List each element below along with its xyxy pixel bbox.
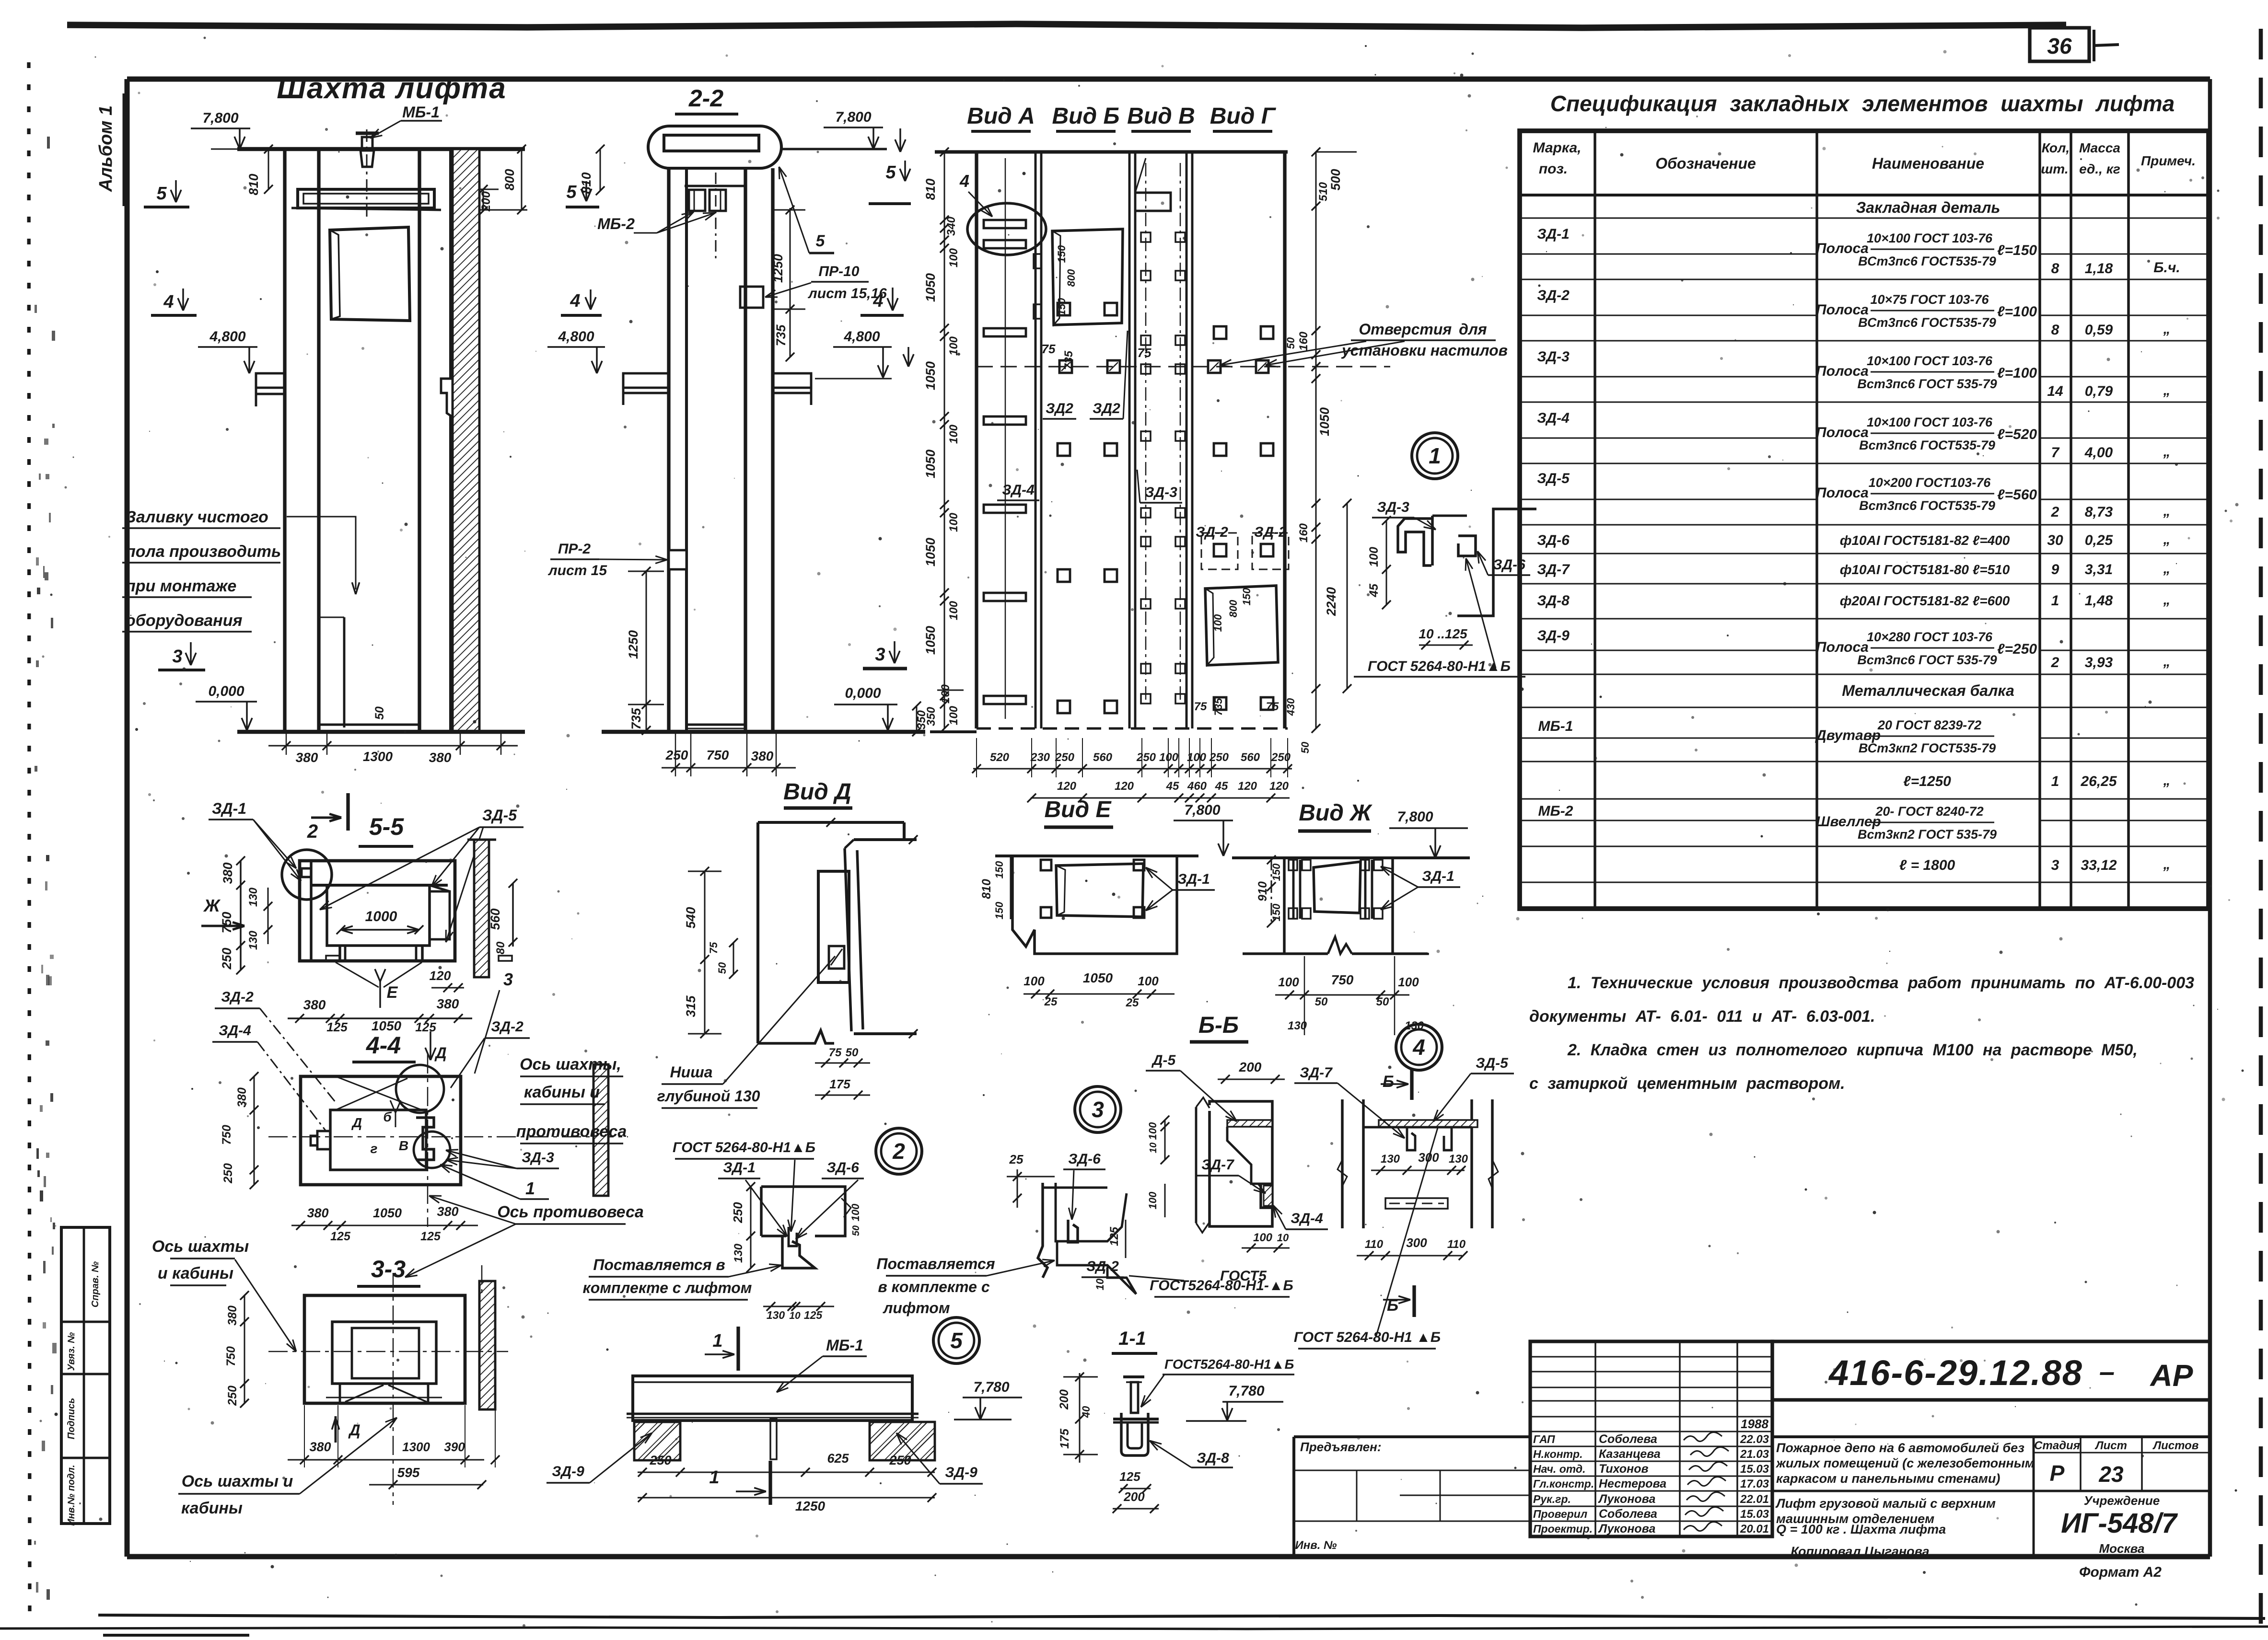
svg-text:ПР-2: ПР-2 [558, 541, 591, 557]
svg-text:750: 750 [1331, 972, 1354, 987]
svg-text:560: 560 [488, 908, 502, 930]
svg-text:735: 735 [774, 324, 788, 346]
plan 3-3 inner [332, 1322, 436, 1384]
svg-text:кабины: кабины [181, 1499, 243, 1517]
svg-text:ГОСТ 5264-80-Н1▲Б: ГОСТ 5264-80-Н1▲Б [673, 1140, 815, 1155]
Vid E window quad [1056, 864, 1143, 917]
svg-text:Учреждение: Учреждение [2084, 1493, 2160, 1508]
svg-text:10: 10 [1148, 1143, 1159, 1153]
svg-text:380: 380 [437, 1204, 458, 1219]
svg-text:Вид Е: Вид Е [1044, 797, 1112, 822]
svg-text:„: „ [2163, 531, 2171, 547]
svg-text:5: 5 [950, 1328, 963, 1353]
svg-text:4: 4 [872, 291, 883, 311]
svg-text:22.01: 22.01 [1740, 1493, 1769, 1506]
svg-text:Луконова: Луконова [1598, 1492, 1655, 1506]
svg-text:810: 810 [923, 178, 938, 200]
svg-text:Копировал Цыганова: Копировал Цыганова [1791, 1544, 1929, 1559]
svg-text:Ось шахты и: Ось шахты и [182, 1472, 293, 1490]
svg-text:430: 430 [1285, 698, 1297, 716]
svg-text:ЗД-1: ЗД-1 [1537, 226, 1570, 242]
svg-text:„: „ [2163, 444, 2171, 460]
svg-text:Пожарное депо на 6 автомобилей: Пожарное депо на 6 автомобилей без [1776, 1441, 2024, 1455]
svg-text:50: 50 [1376, 995, 1389, 1008]
door opening leaf [330, 227, 410, 321]
svg-text:Инв. №: Инв. № [1295, 1539, 1337, 1552]
B-B bottom dims 100 10 [1242, 1247, 1290, 1249]
svg-text:Вид А: Вид А [967, 104, 1035, 129]
svg-text:100: 100 [1212, 614, 1224, 632]
svg-text:2: 2 [892, 1139, 905, 1164]
svg-text:Спецификация закладных эле: Спецификация закладных элементов шахты л… [1550, 91, 2175, 116]
svg-text:1: 1 [1429, 443, 1441, 468]
dim 25 detail3 [1017, 1169, 1018, 1208]
svg-text:150: 150 [1056, 245, 1068, 263]
svg-text:Тихонов: Тихонов [1599, 1462, 1649, 1476]
title block band below doc [1772, 1399, 2210, 1401]
svg-text:ЗД-5: ЗД-5 [1476, 1055, 1509, 1071]
svg-text:документы АТ- 6.01- 011 и АТ: документы АТ- 6.01- 011 и АТ- 6.03-001. [1529, 1007, 1875, 1026]
svg-text:380: 380 [303, 997, 326, 1012]
I-beam cross section 1-1 [1123, 1375, 1144, 1378]
svg-text:15.03: 15.03 [1740, 1463, 1769, 1476]
block bottom dim chain row2 [1031, 797, 1290, 799]
svg-text:–: – [2099, 1356, 2115, 1387]
svg-text:Подпись: Подпись [66, 1398, 77, 1439]
svg-text:21.03: 21.03 [1740, 1448, 1769, 1461]
svg-text:100: 100 [1024, 974, 1045, 988]
door bracket left [317, 1131, 330, 1149]
svg-text:ℓ = 1800: ℓ = 1800 [1899, 857, 1955, 873]
svg-text:810: 810 [980, 879, 993, 899]
svg-text:ф10АI ГОСТ5181-82 ℓ=400: ф10АI ГОСТ5181-82 ℓ=400 [1840, 533, 2010, 548]
svg-text:10: 10 [789, 1310, 801, 1321]
svg-text:МБ-2: МБ-2 [597, 215, 635, 232]
svg-text:4,00: 4,00 [2084, 445, 2113, 461]
svg-text:380: 380 [296, 750, 318, 765]
svg-text:125: 125 [804, 1309, 823, 1321]
svg-text:125: 125 [326, 1020, 348, 1034]
svg-text:4,800: 4,800 [843, 329, 880, 345]
svg-text:ЗД-7: ЗД-7 [1537, 562, 1570, 577]
Vid D bottom dims 75 50 175 [815, 1063, 870, 1064]
svg-text:4-4: 4-4 [366, 1032, 401, 1059]
svg-text:7,800: 7,800 [835, 109, 871, 125]
plan 4-4 cabin [330, 1110, 426, 1170]
spec table column lines [1593, 131, 1596, 909]
svg-text:Кол,: Кол, [2042, 140, 2070, 155]
svg-text:3-3: 3-3 [371, 1256, 406, 1282]
svg-text:75: 75 [1138, 346, 1151, 360]
svg-text:735: 735 [629, 707, 643, 729]
left dim chain of block [944, 152, 945, 728]
svg-text:Проектир.: Проектир. [1533, 1523, 1593, 1535]
svg-text:МБ-1: МБ-1 [1538, 718, 1573, 734]
svg-text:при монтаже: при монтаже [126, 577, 236, 595]
embed bracket right of 2-2 [773, 373, 811, 388]
detail circle on 5-5 corner [282, 850, 332, 900]
svg-text:380: 380 [226, 1305, 239, 1326]
svg-text:5: 5 [885, 162, 896, 183]
Vid Zh top line [1232, 856, 1470, 859]
Vid D pilaster slanted lines [845, 848, 851, 1031]
svg-text:50: 50 [1285, 337, 1297, 349]
panel G dashed frames ZD-2 [1201, 533, 1238, 569]
svg-text:1050: 1050 [923, 361, 938, 390]
svg-text:Стадия: Стадия [2034, 1439, 2080, 1452]
svg-text:Ось шахты: Ось шахты [152, 1237, 249, 1256]
svg-text:Проверил: Проверил [1533, 1508, 1587, 1520]
svg-text:ЗД-4: ЗД-4 [1537, 410, 1570, 426]
svg-text:520: 520 [990, 751, 1010, 764]
svg-text:75: 75 [829, 1046, 842, 1059]
svg-text:150: 150 [1270, 903, 1282, 921]
svg-text:150: 150 [993, 901, 1005, 919]
svg-text:100: 100 [947, 512, 960, 532]
detail 1 wall corner [1457, 509, 1536, 616]
plan 5-5 corner embed ZD-1 [300, 868, 311, 885]
Vid Zh window quad [1314, 862, 1361, 913]
svg-text:10×100 ГОСТ 103-76: 10×100 ГОСТ 103-76 [1867, 354, 1993, 368]
level 4.800 arrow to nastily line [907, 347, 909, 367]
svg-text:100: 100 [1253, 1231, 1273, 1244]
svg-text:глубиной 130: глубиной 130 [657, 1087, 760, 1105]
svg-text:8: 8 [2051, 322, 2059, 338]
svg-text:380: 380 [307, 1206, 328, 1220]
svg-text:10×100 ГОСТ 103-76: 10×100 ГОСТ 103-76 [1867, 231, 1993, 245]
axes of 4-4 [268, 1136, 628, 1138]
svg-text:380: 380 [235, 1087, 249, 1108]
svg-text:50: 50 [851, 1225, 861, 1236]
svg-text:ЗД-3: ЗД-3 [1377, 499, 1409, 515]
svg-text:ЗД-3: ЗД-3 [1145, 485, 1177, 500]
svg-text:Наименование: Наименование [1872, 155, 1984, 172]
svg-text:300: 300 [1406, 1236, 1427, 1250]
svg-text:75: 75 [708, 942, 720, 954]
2-2 pit floor [686, 724, 745, 726]
svg-text:1-1: 1-1 [1118, 1328, 1146, 1349]
svg-text:ВСт3пс6 ГОСТ535-79: ВСт3пс6 ГОСТ535-79 [1858, 254, 1996, 268]
dims 110 300 110 detail4 [1357, 1255, 1462, 1257]
svg-text:2: 2 [2051, 504, 2059, 520]
svg-text:ИГ-548/7: ИГ-548/7 [2061, 1508, 2178, 1539]
svg-text:100: 100 [849, 1203, 861, 1221]
svg-text:ЗД-7: ЗД-7 [1300, 1065, 1333, 1081]
Vid D outer wall top and left [756, 822, 759, 1043]
svg-text:Б-Б: Б-Б [1198, 1013, 1239, 1038]
dim chain below 3-3 [288, 1459, 484, 1461]
svg-text:50: 50 [846, 1046, 859, 1059]
svg-text:поз.: поз. [1539, 161, 1568, 177]
detail 2 corner bracket [782, 1236, 815, 1268]
svg-text:1: 1 [712, 1331, 722, 1351]
elevation ceiling slab line [237, 147, 525, 151]
plan 5-5 top wall inner line [311, 884, 448, 887]
svg-text:3,93: 3,93 [2085, 655, 2113, 670]
svg-text:оборудования: оборудования [126, 612, 243, 630]
svg-text:125: 125 [1119, 1469, 1140, 1484]
svg-text:30: 30 [2047, 532, 2063, 548]
svg-text:1300: 1300 [402, 1440, 430, 1454]
svg-text:Вид Д: Вид Д [783, 779, 851, 805]
svg-text:Предъявлен:: Предъявлен: [1300, 1440, 1381, 1454]
svg-text:100: 100 [947, 248, 960, 267]
hatched wall right of 3-3 [479, 1281, 495, 1409]
svg-text:315: 315 [684, 995, 698, 1017]
svg-text:шт.: шт. [2041, 162, 2068, 176]
svg-text:1000: 1000 [365, 909, 397, 924]
svg-text:250: 250 [1136, 751, 1156, 764]
svg-text:4,800: 4,800 [209, 329, 245, 345]
B-B bottom bracket [1261, 1184, 1272, 1208]
detail 4 right wall [1470, 1099, 1473, 1228]
svg-text:750: 750 [220, 912, 234, 933]
embed bracket at 4.800 level left [256, 373, 285, 388]
svg-text:130: 130 [247, 887, 260, 907]
svg-text:125: 125 [330, 1230, 351, 1243]
detail 3 plate ZD-2 [1057, 1242, 1136, 1294]
detail 4 left wall [1341, 1099, 1343, 1228]
elevation right brick wall [449, 149, 452, 732]
svg-text:250: 250 [889, 1453, 911, 1467]
ground line [237, 730, 525, 734]
axes of 3-3 [393, 1273, 394, 1505]
svg-text:1050: 1050 [372, 1018, 402, 1033]
svg-text:33,12: 33,12 [2081, 857, 2117, 873]
svg-text:100: 100 [1147, 1122, 1159, 1140]
svg-text:ЗД-2: ЗД-2 [1086, 1259, 1119, 1274]
svg-text:750: 750 [220, 1125, 233, 1145]
svg-text:4: 4 [570, 291, 580, 311]
svg-text:Ось шахты,: Ось шахты, [520, 1055, 621, 1074]
plan 5-5 cabin [327, 885, 430, 946]
svg-text:120: 120 [1269, 780, 1289, 793]
svg-text:510: 510 [1317, 182, 1330, 201]
elevation bottom dim chain 380 1300 380 [268, 745, 518, 747]
svg-text:100: 100 [947, 424, 960, 444]
svg-text:810: 810 [579, 172, 593, 194]
svg-text:3: 3 [2051, 857, 2059, 873]
svg-text:противовеса: противовеса [516, 1122, 627, 1141]
dim 595 [369, 1484, 483, 1486]
svg-text:0,59: 0,59 [2085, 322, 2113, 338]
svg-text:лист 15: лист 15 [547, 563, 607, 578]
svg-text:160: 160 [1297, 331, 1310, 351]
svg-text:б: б [383, 1109, 392, 1124]
svg-text:100: 100 [947, 601, 960, 620]
nastily dashed level line [977, 366, 1390, 368]
beam bottom dims [638, 1472, 935, 1473]
svg-text:175: 175 [1058, 1428, 1071, 1449]
svg-text:560: 560 [1093, 751, 1113, 764]
svg-text:ЗД2: ЗД2 [1046, 401, 1073, 416]
svg-text:0,25: 0,25 [2085, 532, 2114, 548]
svg-text:ЗД-1: ЗД-1 [723, 1160, 756, 1176]
svg-text:380: 380 [429, 750, 452, 765]
dims 130 10 125 detail2 [763, 1306, 834, 1307]
svg-text:Вид В: Вид В [1127, 104, 1195, 129]
page number box 36 [2030, 28, 2089, 61]
Vid Zh wall [1243, 858, 1428, 954]
pit floor line [319, 724, 419, 726]
sheet scan edge right dash [2259, 29, 2263, 1634]
spec table header row [1520, 194, 2209, 196]
detail 4 hooks ZD-7 [1407, 1127, 1415, 1150]
svg-text:Д: Д [434, 1044, 446, 1062]
svg-text:0,000: 0,000 [208, 683, 244, 699]
Vid E corner squares [1041, 860, 1051, 870]
svg-text:100: 100 [1138, 974, 1159, 988]
svg-text:130: 130 [247, 930, 260, 950]
svg-text:Формат А2: Формат А2 [2079, 1564, 2162, 1580]
svg-text:50: 50 [1299, 741, 1311, 753]
svg-text:ЗД-8: ЗД-8 [1537, 593, 1570, 609]
svg-text:ℓ=100: ℓ=100 [1997, 365, 2037, 381]
detail circle 1 [1412, 433, 1458, 479]
svg-text:ед., кг: ед., кг [2079, 162, 2120, 176]
svg-text:ЗД-4: ЗД-4 [219, 1023, 251, 1039]
svg-text:Вид Г: Вид Г [1210, 104, 1277, 129]
hatched wall right of 4-4 [593, 1064, 608, 1196]
svg-text:1050: 1050 [923, 273, 938, 302]
svg-text:8: 8 [2051, 261, 2059, 277]
dim 200 above B-B [1218, 1079, 1285, 1080]
svg-text:25: 25 [1044, 995, 1058, 1008]
detail 1 ZD-6 hook [1458, 536, 1476, 556]
svg-text:380: 380 [221, 862, 235, 884]
svg-text:ℓ=1250: ℓ=1250 [1903, 774, 1951, 789]
svg-text:Шахта лифта: Шахта лифта [277, 72, 506, 105]
svg-text:Соболева: Соболева [1599, 1507, 1657, 1521]
svg-text:Альбом 1: Альбом 1 [96, 105, 116, 192]
svg-text:50: 50 [716, 962, 728, 974]
svg-text:Вст3пс6 ГОСТ 535-79: Вст3пс6 ГОСТ 535-79 [1857, 653, 1997, 667]
svg-text:340: 340 [945, 216, 958, 236]
detail 3 wall and plate [1038, 1183, 1047, 1278]
svg-text:ℓ=560: ℓ=560 [1997, 487, 2037, 503]
svg-text:„: „ [2163, 503, 2171, 519]
detail 4 lower plate dashed [1385, 1198, 1448, 1209]
counterweight bracket right [416, 1118, 434, 1160]
svg-text:Вид Ж: Вид Ж [1299, 800, 1372, 826]
B-B top plate hatched [1227, 1120, 1272, 1127]
svg-text:750: 750 [224, 1346, 238, 1366]
svg-text:1,18: 1,18 [2085, 261, 2113, 277]
dim chain below 5-5 [288, 1017, 472, 1019]
svg-text:20 ГОСТ 8239-72: 20 ГОСТ 8239-72 [1877, 718, 1981, 732]
title block signature table outline [1530, 1341, 1772, 1536]
svg-text:ЗД-6: ЗД-6 [1537, 532, 1570, 548]
svg-text:1988: 1988 [1741, 1417, 1768, 1431]
svg-text:5: 5 [566, 182, 577, 202]
svg-text:„: „ [2163, 773, 2171, 788]
svg-text:Примеч.: Примеч. [2141, 153, 2196, 168]
svg-text:7,800: 7,800 [1397, 809, 1433, 825]
niche PR-2 in left wall [669, 550, 686, 569]
svg-text:120: 120 [1057, 780, 1077, 793]
svg-text:1250: 1250 [626, 630, 640, 659]
2-2 bottom dim chain 250 750 380 [662, 767, 796, 769]
ground line below block [930, 730, 977, 733]
svg-text:жилых помещений (с железобетон: жилых помещений (с железобетонным [1775, 1456, 2035, 1470]
2-2 right wall [744, 168, 747, 732]
svg-text:1050: 1050 [923, 538, 938, 566]
leaders detail2 [745, 1180, 787, 1236]
embed bracket left of 2-2 [623, 373, 669, 388]
svg-text:ЗД-3: ЗД-3 [1537, 349, 1570, 365]
svg-text:10×75 ГОСТ 103-76: 10×75 ГОСТ 103-76 [1870, 292, 1989, 307]
svg-text:150: 150 [1270, 863, 1282, 881]
svg-text:Вст3пс6 ГОСТ535-79: Вст3пс6 ГОСТ535-79 [1859, 438, 1995, 452]
svg-text:ℓ=100: ℓ=100 [1997, 304, 2037, 320]
svg-text:ℓ=520: ℓ=520 [1997, 427, 2037, 442]
svg-text:3: 3 [875, 645, 885, 665]
svg-text:ЗД-6: ЗД-6 [1068, 1151, 1101, 1167]
svg-text:120: 120 [1115, 780, 1134, 793]
svg-text:380: 380 [309, 1440, 331, 1454]
svg-text:Ж: Ж [203, 896, 221, 915]
svg-text:2: 2 [307, 821, 318, 842]
svg-text:500: 500 [1328, 169, 1343, 190]
plan 4-4 interior diagonals [336, 1076, 422, 1110]
svg-text:10×200 ГОСТ103-76: 10×200 ГОСТ103-76 [1869, 475, 1991, 490]
svg-text:540: 540 [684, 907, 698, 928]
svg-text:100: 100 [1278, 975, 1299, 989]
svg-text:75: 75 [1266, 700, 1279, 713]
svg-text:0,000: 0,000 [845, 685, 881, 701]
svg-text:7,780: 7,780 [1228, 1383, 1264, 1399]
svg-text:Д-5: Д-5 [1151, 1052, 1176, 1068]
svg-text:„: „ [2163, 382, 2171, 398]
detail circles on 4-4 [396, 1065, 444, 1113]
detail ellipse on panel A top [967, 203, 1046, 255]
svg-text:Ось противовеса: Ось противовеса [497, 1203, 644, 1221]
svg-text:595: 595 [397, 1465, 420, 1480]
svg-text:100: 100 [939, 684, 952, 704]
Vid E wall [1012, 856, 1177, 954]
svg-text:МБ-1: МБ-1 [826, 1337, 863, 1354]
svg-text:230: 230 [1030, 751, 1050, 764]
2-2 left wall [667, 168, 670, 732]
plan 3-3 outer walls [304, 1295, 465, 1403]
block panel divider lines [1035, 152, 1037, 728]
panel G window [1205, 586, 1278, 665]
svg-text:130: 130 [767, 1309, 785, 1321]
svg-text:ГОСТ5264-80-Н1▲Б: ГОСТ5264-80-Н1▲Б [1164, 1357, 1294, 1372]
dims 1-1 left [1079, 1373, 1081, 1463]
svg-text:Заливку чистого: Заливку чистого [126, 508, 268, 526]
svg-text:„: „ [2163, 856, 2171, 872]
leader from note to pit [287, 517, 356, 589]
svg-text:ЗД-9: ЗД-9 [1537, 628, 1570, 644]
svg-text:ℓ=250: ℓ=250 [1997, 641, 2037, 657]
hatched wall right of 5-5 [474, 840, 489, 977]
svg-text:80: 80 [494, 941, 507, 954]
svg-text:ЗД-1: ЗД-1 [1177, 871, 1210, 887]
svg-text:Обозначение: Обозначение [1655, 155, 1756, 172]
svg-text:установки настилов: установки настилов [1341, 342, 1508, 359]
svg-text:100: 100 [947, 705, 960, 725]
svg-text:50: 50 [373, 706, 386, 720]
svg-text:Масса: Масса [2079, 140, 2120, 155]
signature table rows [1530, 1356, 1772, 1358]
support blocks hatched [634, 1422, 680, 1460]
svg-text:7,780: 7,780 [973, 1379, 1009, 1395]
svg-text:5-5: 5-5 [369, 813, 404, 840]
svg-text:160: 160 [1297, 523, 1310, 543]
svg-text:40: 40 [1080, 1406, 1092, 1418]
B-B wall outline [1210, 1101, 1272, 1226]
